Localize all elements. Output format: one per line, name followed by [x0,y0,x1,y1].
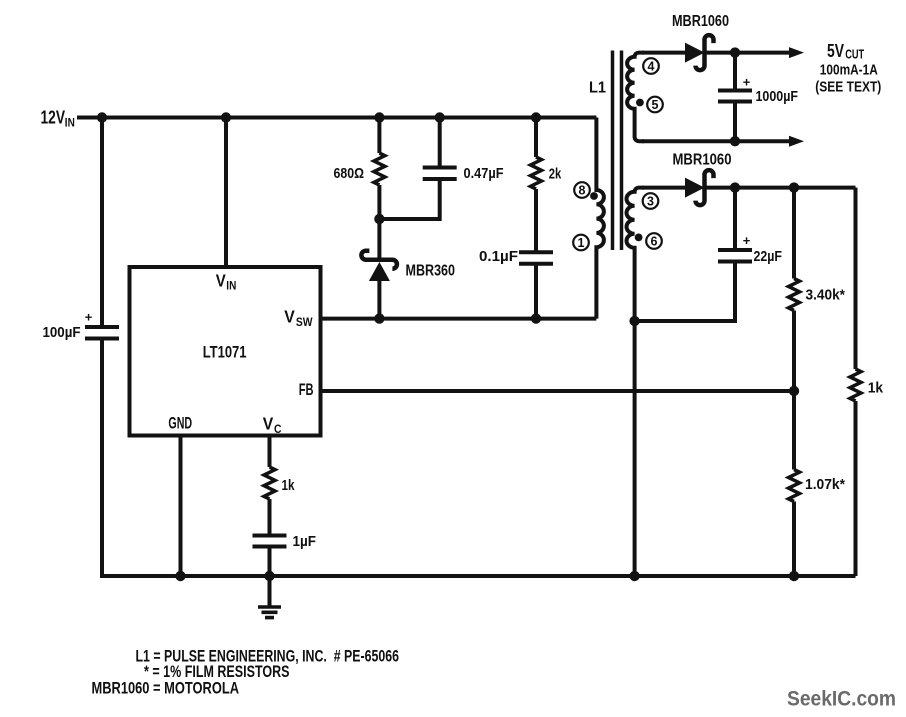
svg-text:1.07k*: 1.07k* [805,476,845,493]
wire bottom ground rail [102,574,856,578]
pin label VSW [284,307,313,330]
wire 22uF top drop [733,188,737,250]
label 5VCUT output [815,40,881,95]
svg-text:0.47µF: 0.47µF [464,165,504,182]
node junction dot 680-0.47 [374,214,384,224]
svg-text:+: + [85,310,93,325]
wire top 12V rail [77,116,596,120]
svg-text:MBR360: MBR360 [406,263,456,280]
primary phasing dot pin 8 [590,192,598,200]
svg-text:100mA-1A: 100mA-1A [820,61,878,78]
svg-text:LT1071: LT1071 [203,342,247,361]
resistor R5 1.07k [789,470,800,502]
svg-text:+: + [743,75,751,90]
diode D1 MBR360 (schottky, pointing up) [361,251,397,281]
svg-text:6: 6 [651,235,658,249]
svg-text:3: 3 [647,195,654,209]
svg-text:+: + [743,233,751,248]
node junction dots secondary2 rail [730,182,799,192]
wire FB rail [321,389,795,393]
node circled 1 [573,235,589,251]
svg-text:V: V [216,270,226,290]
svg-text:V: V [284,307,295,327]
svg-text:FB: FB [299,380,314,399]
wire 1k to ground rail [854,401,858,576]
resistor R4 3.40k [789,279,800,311]
svg-text:L1: L1 [589,80,606,97]
svg-text:IN: IN [65,118,75,130]
svg-text:MBR1060: MBR1060 [673,152,732,169]
node circled 6 [646,233,662,249]
capacitor C1 100uF [85,310,119,339]
wire 2k top drop [534,118,538,158]
capacitor C5 1000uF [718,75,752,102]
transformer L1 secondary winding pins 4-5 [627,53,644,142]
wire C2 to ground rail [268,547,272,577]
svg-text:IN: IN [226,279,236,293]
wire right output drop [854,188,858,369]
svg-text:12V: 12V [41,108,66,128]
svg-text:1000µF: 1000µF [756,88,799,105]
ground symbol [258,576,281,618]
wire 680ohm to MBR360 [377,185,381,260]
wire VIN pin drop [224,118,228,268]
svg-text:V: V [263,414,274,434]
wire VC between R1 and C2 [268,499,272,536]
transformer L1 core bars [613,51,622,251]
node junction dots VSW rail [374,313,541,323]
svg-text:(SEE TEXT): (SEE TEXT) [815,79,881,96]
diode D2 MBR1060 top (schottky, pointing right) [685,35,714,70]
svg-text:GND: GND [168,414,192,433]
wire secondary2 top to diode [642,186,685,190]
resistor R3 2k [531,157,542,189]
svg-text:1k: 1k [868,380,884,397]
svg-text:22µF: 22µF [754,248,783,265]
diode D3 MBR1060 bottom (schottky, pointing right) [685,170,714,205]
node circled 3 [643,193,659,209]
wire VC pin drop [268,436,272,468]
resistor R2 680ohm branch upper wire [377,118,381,154]
capacitor C3 0.47uF [423,168,457,180]
wire 1.07k to ground rail [792,502,796,577]
pin label VC [263,414,282,437]
svg-text:MBR1060 = MOTOROLA: MBR1060 = MOTOROLA [92,678,240,697]
svg-text:5: 5 [652,98,659,112]
wire 0.1uF to VSW rail [534,264,538,319]
svg-text:C: C [274,422,282,436]
svg-text:1k: 1k [282,477,296,494]
svg-text:0.1µF: 0.1µF [479,248,518,265]
wire MBR360 to VSW rail [377,281,381,319]
wire diode2 output rail [706,186,856,190]
svg-text:5V: 5V [827,40,844,61]
node junction dots top rail [97,112,541,122]
wire left rail lower (100uF bottom to ground rail) [100,339,104,579]
svg-text:3.40k*: 3.40k* [806,287,846,304]
wire secondary1 top to diode [642,51,685,55]
capacitor C4 0.1uF [519,252,553,263]
wire left rail upper (12V to 100uF top) [100,118,104,328]
op-amp U1 LT1071 box [130,267,321,436]
wire 1000uF bottom drop [733,102,737,142]
wire 22uF bottom to pin6 node [635,262,735,322]
capacitor C6 22uF [718,233,752,262]
wire 3.40k to FB node [792,311,796,392]
node 12VIN label [41,108,75,130]
resistor R1 1k (VC) [264,467,275,499]
node junction dots ground rail [175,571,799,581]
wire secondary1 return with arrow [642,136,804,147]
secondary 1 phasing dot pin 5 [636,99,644,107]
pin label VIN [216,270,237,292]
node circled 5 [647,97,663,113]
node junction dots secondary1 [730,47,740,146]
node junction pin6 drop [629,316,639,326]
transformer L1 primary winding pins 8-1 [596,118,604,319]
svg-text:SeekIC.com: SeekIC.com [787,688,896,711]
node circled 8 [574,182,590,198]
capacitor C2 1uF [253,536,287,547]
wire 2k to 0.1uF [534,189,538,252]
svg-text:2k: 2k [549,166,562,183]
wire 0.47uF bottom to 680 node [379,179,439,219]
svg-text:100µF: 100µF [43,324,81,341]
svg-text:SW: SW [296,315,313,329]
wire diode to 5V output with arrow [706,47,804,58]
wire 0.47uF top drop [438,118,442,168]
svg-text:1µF: 1µF [293,533,317,550]
svg-text:8: 8 [579,184,586,198]
secondary 2 phasing dot pin 6 [635,234,643,242]
wire VSW rail [321,317,597,321]
svg-text:680Ω: 680Ω [334,165,365,182]
node junction dot FB divider [789,386,799,396]
svg-text:CUT: CUT [845,48,864,62]
svg-text:4: 4 [648,60,655,74]
wire 1000uF top drop [733,53,737,91]
svg-text:1: 1 [578,236,585,250]
resistor R4 3.40k upper wire [792,188,796,279]
transformer L1 secondary winding pins 3-6 [627,188,644,576]
node circled 4 [643,58,659,74]
resistor R6 1k [850,369,861,401]
resistor R5 1.07k upper wire [792,391,796,470]
wire GND pin drop [179,436,183,577]
resistor R2 680ohm [374,153,385,185]
svg-text:MBR1060: MBR1060 [672,13,729,30]
